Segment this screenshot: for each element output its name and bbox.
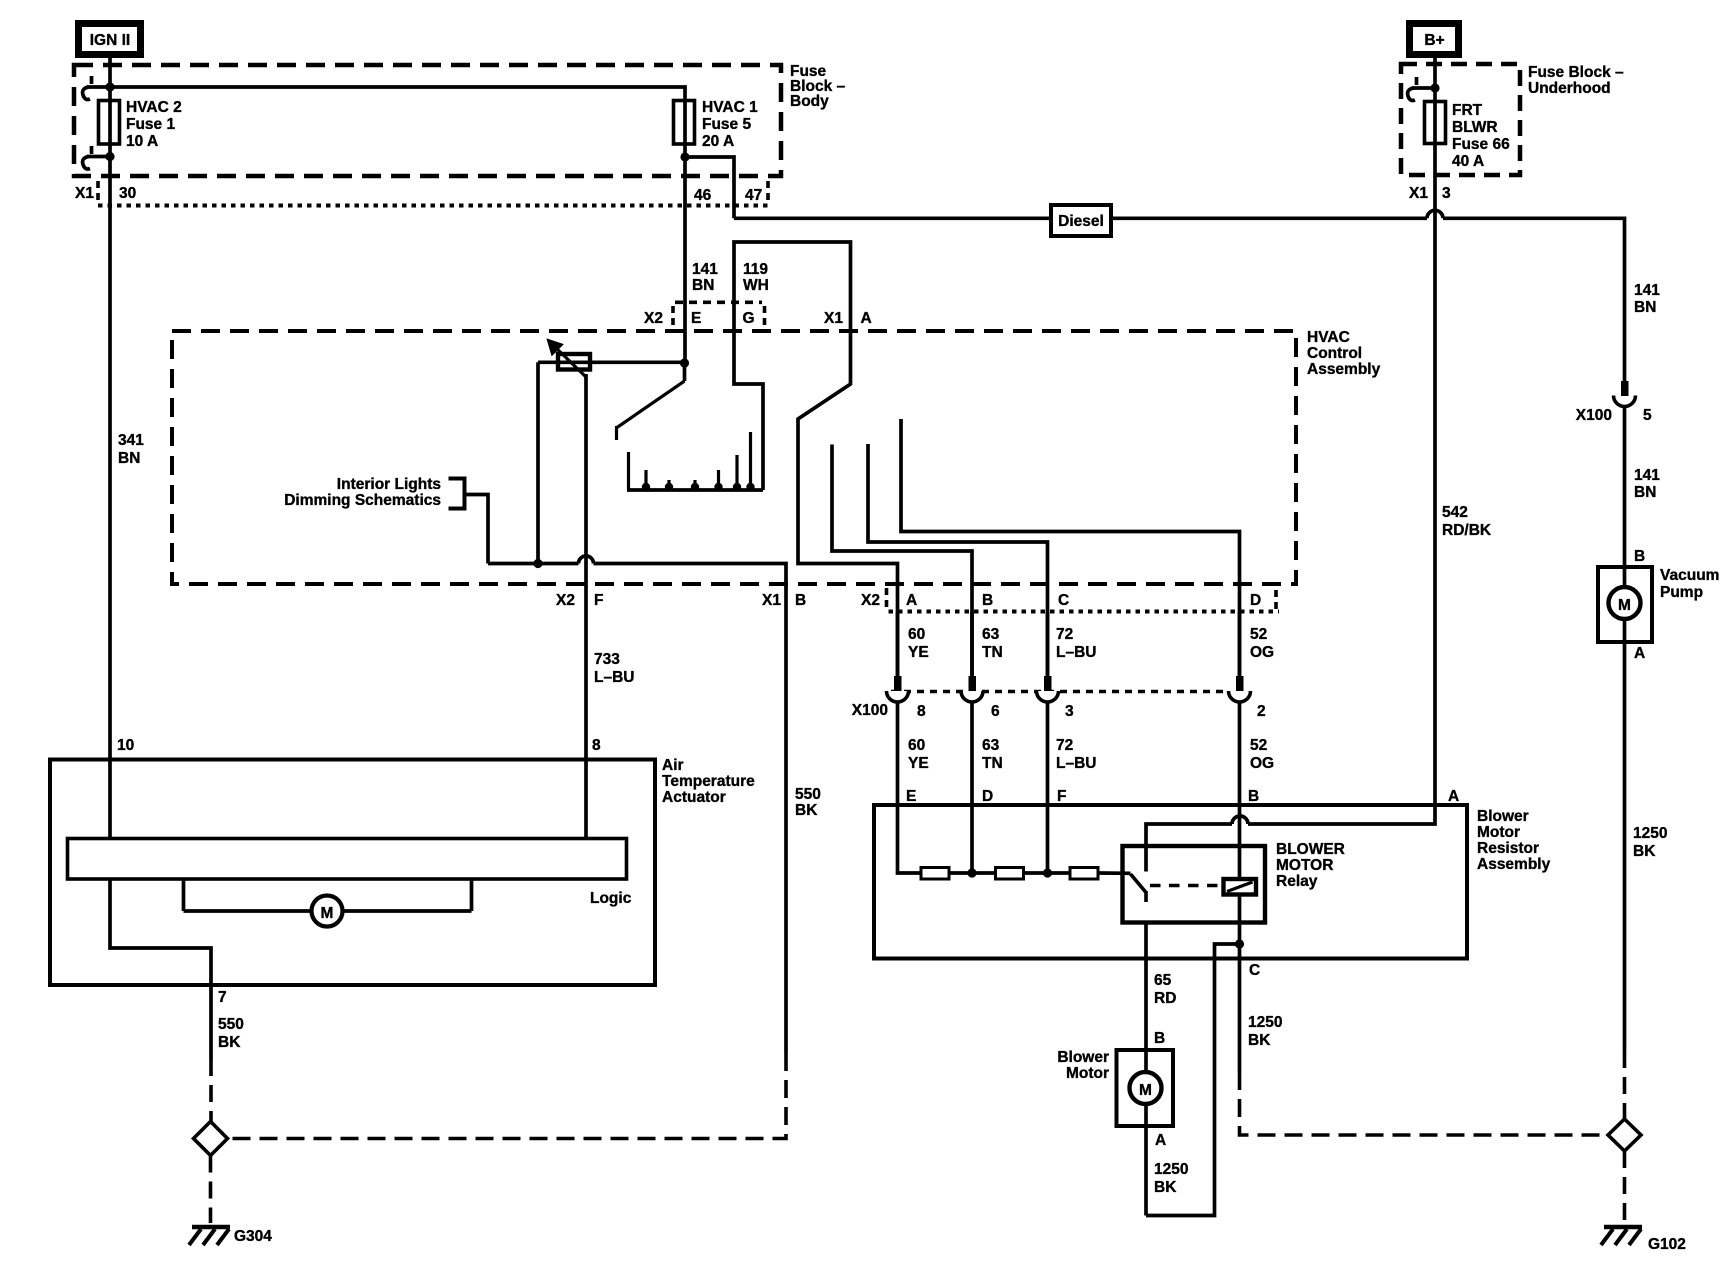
svg-text:E: E <box>906 788 916 805</box>
resistor element 1 <box>921 868 949 880</box>
power tag IGN II <box>75 20 144 58</box>
wire X100 to resistor D <box>970 702 974 873</box>
wire jumper G to X1-A <box>734 242 851 331</box>
ground G102 <box>1601 1227 1686 1253</box>
splice diamond right <box>1608 1119 1641 1151</box>
svg-text:F: F <box>594 592 603 609</box>
switch contact wire to X2-B <box>832 445 972 677</box>
svg-text:A: A <box>1448 788 1459 805</box>
label Fuse Block Underhood <box>1528 64 1624 97</box>
svg-text:Underhood: Underhood <box>1528 80 1611 97</box>
wire C terminal down <box>1238 944 1242 1072</box>
svg-text:RD: RD <box>1154 990 1176 1007</box>
diesel feed wire left part <box>734 216 1427 220</box>
svg-text:Assembly: Assembly <box>1307 361 1381 378</box>
wire 542 feed into resistor box A <box>1248 805 1435 824</box>
actuator motor M <box>312 896 343 927</box>
actuator logic bar <box>68 839 627 880</box>
svg-text:D: D <box>1250 592 1261 609</box>
junction dot pin46/47 branch <box>680 152 689 161</box>
label 52 OG lower <box>1250 737 1274 772</box>
air temperature actuator box <box>50 760 655 986</box>
label 141 BN right upper <box>1634 282 1660 316</box>
svg-text:M: M <box>1139 1082 1152 1099</box>
label 63 TN upper <box>982 626 1003 661</box>
switch contact wire to X2-D <box>901 419 1240 676</box>
junction dot dimmer <box>533 559 542 568</box>
svg-text:Diesel: Diesel <box>1058 213 1104 230</box>
svg-text:30: 30 <box>119 185 136 202</box>
wire X100 to resistor F <box>1046 702 1050 873</box>
wire X1-A to X2-A <box>798 331 898 676</box>
svg-text:M: M <box>1618 597 1631 614</box>
label 1250 BK right <box>1633 825 1667 860</box>
svg-text:G: G <box>743 310 755 327</box>
svg-text:BN: BN <box>118 450 140 467</box>
svg-text:Fuse 5: Fuse 5 <box>702 116 751 133</box>
svg-text:B: B <box>795 592 806 609</box>
svg-text:1250: 1250 <box>1248 1014 1282 1031</box>
svg-text:Temperature: Temperature <box>662 773 755 790</box>
label 1250 BK blower motor <box>1154 1161 1188 1196</box>
wire motor ground return <box>1146 944 1240 1216</box>
svg-text:OG: OG <box>1250 755 1274 772</box>
svg-text:7: 7 <box>218 989 227 1006</box>
wire X2-D to X100 <box>1238 612 1242 677</box>
svg-text:141: 141 <box>692 261 718 278</box>
resistor element 2 <box>996 868 1024 880</box>
svg-text:3: 3 <box>1442 185 1451 202</box>
fuse clip bottom left <box>83 146 110 169</box>
wire X100 to resistor E <box>896 702 900 805</box>
svg-text:MOTOR: MOTOR <box>1276 857 1333 874</box>
wire 550 BK dashed to splice <box>228 1053 786 1139</box>
blower motor relay box <box>1123 846 1266 923</box>
wire 341 BN left main <box>108 143 112 839</box>
connector X2 pins A B C D row <box>861 588 1279 612</box>
junction dot D <box>967 868 976 877</box>
junction dot coil ground <box>1235 939 1244 948</box>
label 63 TN lower <box>982 737 1003 772</box>
svg-text:550: 550 <box>795 786 821 803</box>
svg-text:X1: X1 <box>1409 185 1428 202</box>
svg-text:2: 2 <box>1257 703 1266 720</box>
wire 1250 BK right solid <box>1623 642 1627 1051</box>
svg-text:HVAC: HVAC <box>1307 329 1350 346</box>
label 52 OG upper <box>1250 626 1274 661</box>
svg-text:FRT: FRT <box>1452 102 1483 119</box>
wire dashed splice to G304 <box>209 1156 213 1224</box>
blower motor M <box>1130 1072 1162 1104</box>
svg-text:Interior Lights: Interior Lights <box>337 476 441 493</box>
fuse block body dashed box <box>74 65 781 176</box>
fuse clip top left <box>83 76 110 100</box>
blower motor resistor assembly box <box>874 805 1467 959</box>
rheostat blower speed <box>548 340 591 377</box>
svg-text:B: B <box>1248 788 1259 805</box>
wire IGN II feed down <box>108 58 112 101</box>
svg-text:D: D <box>982 788 993 805</box>
svg-text:X2: X2 <box>556 592 575 609</box>
label HVAC 2 Fuse 1 10 A <box>126 99 182 150</box>
label 141 BN right lower <box>1634 467 1660 501</box>
HVAC control assembly dashed box <box>172 331 1296 584</box>
label 341 BN <box>118 432 144 467</box>
wire rheostat left leg <box>536 362 540 563</box>
svg-text:Control: Control <box>1307 345 1362 362</box>
svg-text:Pump: Pump <box>1660 584 1703 601</box>
svg-text:141: 141 <box>1634 467 1660 484</box>
wire hop over coil wire <box>1232 816 1248 824</box>
svg-text:Fuse 1: Fuse 1 <box>126 116 175 133</box>
wire dashed C to ground run <box>1240 1072 1609 1135</box>
resistor element 3 <box>1070 868 1098 880</box>
svg-text:1250: 1250 <box>1154 1161 1188 1178</box>
svg-text:Air: Air <box>662 757 684 774</box>
svg-text:C: C <box>1058 592 1069 609</box>
wire 141 BN to vacuum pump <box>1623 407 1627 589</box>
label Vacuum Pump <box>1660 567 1719 601</box>
label HVAC Control Assembly <box>1307 329 1381 378</box>
power tag B+ <box>1406 20 1462 58</box>
svg-text:542: 542 <box>1442 504 1468 521</box>
wire dashed to splice right <box>1623 1051 1627 1119</box>
svg-text:A: A <box>861 310 872 327</box>
svg-text:WH: WH <box>743 277 769 294</box>
svg-text:BK: BK <box>1633 843 1656 860</box>
connector X100 row dotted link <box>891 690 1229 694</box>
svg-text:8: 8 <box>917 703 926 720</box>
label 72 L-BU lower <box>1056 737 1096 772</box>
label X100 and pin numbers <box>852 702 1266 720</box>
svg-text:L–BU: L–BU <box>594 669 634 686</box>
junction dot below fuse1 <box>105 152 114 161</box>
svg-text:733: 733 <box>594 651 620 668</box>
wire E inside resistor box <box>898 805 922 873</box>
label 60 YE upper <box>908 626 929 661</box>
svg-text:M: M <box>321 905 334 922</box>
svg-text:63: 63 <box>982 626 1000 643</box>
svg-text:Resistor: Resistor <box>1477 840 1539 857</box>
svg-text:HVAC 1: HVAC 1 <box>702 99 758 116</box>
svg-text:IGN II: IGN II <box>90 32 130 49</box>
svg-text:46: 46 <box>694 187 712 204</box>
svg-text:20 A: 20 A <box>702 133 734 150</box>
svg-text:X100: X100 <box>852 702 888 719</box>
junction dot F <box>1043 868 1052 877</box>
connector X100 pin 5 <box>1576 381 1652 424</box>
svg-text:OG: OG <box>1250 644 1274 661</box>
svg-text:X1: X1 <box>824 310 843 327</box>
fan switch wiper arm <box>617 363 685 440</box>
connector X100 pin 2 <box>1229 676 1251 702</box>
label 542 RD/BK <box>1442 504 1492 539</box>
label 550 BK left-middle <box>795 786 821 819</box>
connector X2 pins E G pocket <box>644 302 765 327</box>
wire actuator pin7 path <box>110 879 211 1059</box>
svg-text:BLOWER: BLOWER <box>1276 841 1345 858</box>
label HVAC 1 Fuse 5 20 A <box>702 99 758 150</box>
svg-text:Dimming Schematics: Dimming Schematics <box>284 492 441 509</box>
wire X2-B to X100 <box>970 612 974 677</box>
svg-text:YE: YE <box>908 644 929 661</box>
svg-text:6: 6 <box>991 703 1000 720</box>
svg-text:A: A <box>906 592 917 609</box>
label 119 WH <box>743 261 769 294</box>
connector X1 underhood row <box>1409 185 1451 202</box>
svg-text:Vacuum: Vacuum <box>1660 567 1719 584</box>
svg-text:10: 10 <box>117 737 134 754</box>
svg-text:X1: X1 <box>762 592 781 609</box>
label FRT BLWR Fuse 66 40 A <box>1452 102 1510 170</box>
svg-text:G304: G304 <box>234 1228 272 1245</box>
wire X2-A to X100 <box>896 612 900 677</box>
splice diamond left <box>194 1122 228 1156</box>
wire dimmer bus to X1-B <box>488 556 786 611</box>
wire coil to junction C <box>1238 895 1242 945</box>
blower motor box <box>1117 1050 1174 1126</box>
vacuum pump motor M <box>1609 587 1641 642</box>
fuse HVAC 2 Fuse 1 <box>99 99 120 145</box>
fuse block underhood dashed box <box>1401 64 1520 175</box>
svg-text:C: C <box>1249 962 1260 979</box>
svg-text:BN: BN <box>1634 484 1656 501</box>
connector X2-F X1-B labels <box>556 592 806 609</box>
svg-text:Body: Body <box>790 93 829 110</box>
svg-text:60: 60 <box>908 737 925 754</box>
wire hop over B+ drop <box>1427 210 1443 218</box>
svg-text:141: 141 <box>1634 282 1660 299</box>
svg-text:BLWR: BLWR <box>1452 119 1498 136</box>
svg-text:YE: YE <box>908 755 929 772</box>
svg-text:60: 60 <box>908 626 925 643</box>
svg-text:65: 65 <box>1154 972 1172 989</box>
svg-text:3: 3 <box>1065 703 1074 720</box>
svg-text:52: 52 <box>1250 626 1267 643</box>
relay coil <box>1224 879 1257 895</box>
svg-text:B+: B+ <box>1424 32 1444 49</box>
connector X1 body fuse block row <box>75 181 768 206</box>
svg-text:BK: BK <box>795 802 818 819</box>
relay switch arm <box>1131 874 1147 902</box>
svg-text:X1: X1 <box>75 185 94 202</box>
svg-text:BN: BN <box>692 277 714 294</box>
svg-text:Fuse 66: Fuse 66 <box>1452 136 1510 153</box>
relay actuation dashed link <box>1150 884 1223 888</box>
svg-text:BN: BN <box>1634 299 1656 316</box>
svg-text:RD/BK: RD/BK <box>1442 522 1492 539</box>
svg-text:Blower: Blower <box>1477 808 1529 825</box>
svg-text:341: 341 <box>118 432 144 449</box>
svg-text:52: 52 <box>1250 737 1267 754</box>
wire X100 to relay coil B <box>1238 702 1242 880</box>
label Blower Motor <box>1057 1049 1109 1082</box>
svg-text:119: 119 <box>743 261 768 278</box>
label 1250 BK center <box>1248 1014 1282 1049</box>
svg-text:72: 72 <box>1056 626 1073 643</box>
fuse FRT BLWR Fuse 66 <box>1425 102 1446 144</box>
wire dashed splice to G102 <box>1623 1151 1627 1223</box>
connector X100 pin 8 <box>887 676 909 702</box>
ground G304 <box>189 1227 272 1245</box>
diesel feed wire right part <box>1443 218 1625 384</box>
svg-text:F: F <box>1057 788 1066 805</box>
svg-text:8: 8 <box>592 737 601 754</box>
connector X100 pin 6 <box>961 676 983 702</box>
fuse HVAC 1 Fuse 5 <box>674 101 695 145</box>
svg-text:L–BU: L–BU <box>1056 755 1096 772</box>
resistor terminal letters <box>906 788 1459 805</box>
svg-text:5: 5 <box>1643 407 1652 424</box>
wire X2-C to X100 <box>1046 612 1050 677</box>
svg-text:Motor: Motor <box>1477 824 1520 841</box>
label 65 RD <box>1154 972 1176 1007</box>
svg-text:BK: BK <box>1248 1032 1271 1049</box>
junction dot E wire <box>680 358 689 367</box>
svg-text:Relay: Relay <box>1276 873 1318 890</box>
wire R2 to R3 <box>1024 871 1071 875</box>
svg-text:X2: X2 <box>861 592 880 609</box>
svg-text:X2: X2 <box>644 310 663 327</box>
vacuum pump box <box>1598 567 1652 642</box>
svg-text:Motor: Motor <box>1066 1065 1109 1082</box>
wire rheostat to E junction <box>538 360 685 364</box>
label BLOWER MOTOR Relay <box>1276 841 1345 890</box>
svg-text:1250: 1250 <box>1633 825 1667 842</box>
fuse clip underhood <box>1408 77 1435 101</box>
label 550 BK bottom <box>218 1016 244 1051</box>
junction dot fuse feed <box>105 82 114 91</box>
svg-text:B: B <box>1154 1030 1165 1047</box>
svg-text:B: B <box>982 592 993 609</box>
tag Diesel <box>1051 205 1111 236</box>
wire fuse5 to pin47 <box>685 157 734 218</box>
svg-text:L–BU: L–BU <box>1056 644 1096 661</box>
junction dot under B+ <box>1430 83 1439 92</box>
svg-text:A: A <box>1634 645 1645 662</box>
svg-text:B: B <box>1634 548 1645 565</box>
wire feed branch to HVAC1 fuse <box>110 87 685 101</box>
fan switch contact comb <box>627 432 763 491</box>
wire R3 to relay common <box>1098 871 1131 875</box>
wire dashed pin7 to splice <box>209 1059 213 1122</box>
switch contact wire to X2-C <box>868 444 1048 676</box>
svg-text:Blower: Blower <box>1057 1049 1109 1066</box>
svg-text:40 A: 40 A <box>1452 153 1484 170</box>
svg-text:63: 63 <box>982 737 1000 754</box>
svg-text:Logic: Logic <box>590 890 632 907</box>
label 141 BN <box>692 261 718 294</box>
svg-text:BK: BK <box>1154 1179 1177 1196</box>
svg-text:Fuse Block –: Fuse Block – <box>1528 64 1624 81</box>
wire 119 WH G leg to comb <box>734 331 763 490</box>
label Air Temperature Actuator <box>662 757 755 806</box>
actuator motor circuit <box>184 879 472 911</box>
svg-text:Assembly: Assembly <box>1477 856 1551 873</box>
svg-text:E: E <box>691 310 701 327</box>
svg-text:47: 47 <box>745 187 762 204</box>
label Fuse Block Body <box>790 63 846 110</box>
wire R1 to R2 <box>949 871 996 875</box>
svg-text:10 A: 10 A <box>126 133 158 150</box>
label 733 L-BU <box>594 651 634 686</box>
label 72 L-BU upper <box>1056 626 1096 661</box>
wire B+ drop through fuse66 <box>1433 58 1437 805</box>
label 60 YE lower <box>908 737 929 772</box>
connector X1 pin A labels <box>824 310 872 327</box>
svg-text:X100: X100 <box>1576 407 1612 424</box>
wire 550 BK X1-B down <box>784 612 788 1054</box>
svg-text:Actuator: Actuator <box>662 789 726 806</box>
wire 65 RD relay to motor <box>1144 923 1148 1216</box>
svg-text:A: A <box>1155 1132 1166 1149</box>
connector X100 pin 3 <box>1037 676 1059 702</box>
svg-text:TN: TN <box>982 644 1003 661</box>
svg-text:HVAC 2: HVAC 2 <box>126 99 182 116</box>
svg-text:TN: TN <box>982 755 1003 772</box>
svg-text:72: 72 <box>1056 737 1073 754</box>
wire A to relay fixed contact <box>1146 824 1232 872</box>
svg-text:BK: BK <box>218 1034 241 1051</box>
label Blower Motor Resistor Assembly <box>1477 808 1551 873</box>
svg-text:G102: G102 <box>1648 1236 1686 1253</box>
interior lights callout bracket <box>284 476 488 564</box>
wire 141 BN fuse5 to X2-E <box>683 99 687 363</box>
svg-text:550: 550 <box>218 1016 244 1033</box>
wire 733 L-BU <box>584 374 588 839</box>
